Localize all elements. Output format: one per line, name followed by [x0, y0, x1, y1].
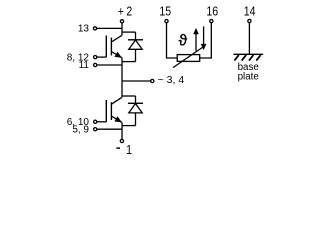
IGBT Q2 collector diagonal: [111, 97, 121, 104]
wire 16 down to thermistor R1: [200, 23, 212, 58]
diode D2 branch top: [135, 96, 137, 103]
base plate hatch 1: [234, 55, 238, 61]
svg-text:5, 9: 5, 9: [72, 124, 89, 135]
svg-text:ϑ: ϑ: [179, 33, 188, 50]
base plate line: [234, 53, 264, 55]
terminal 11 circle: [94, 63, 97, 66]
base plate hatch 3: [249, 55, 253, 61]
IGBT Q1 emitter arrowhead: [114, 52, 122, 58]
IGBT Q1 body bar: [110, 38, 112, 56]
svg-text:1: 1: [126, 142, 132, 157]
terminal 6,10 circle: [94, 120, 97, 123]
IGBT Q2 body bar: [110, 102, 112, 120]
IGBT Q1 collector diagonal: [111, 35, 121, 42]
terminal -1 circle: [120, 139, 123, 142]
emitter rail top IGBT down to bottom collector node: [121, 58, 123, 98]
wire 5,9 to emitter rail: [97, 128, 122, 130]
wire mid node to terminal 3,4: [122, 80, 151, 82]
wire 15 down to thermistor R1: [167, 23, 178, 58]
wire 13 to collector rail: [97, 27, 122, 29]
svg-text:15: 15: [159, 3, 171, 18]
svg-text:16: 16: [206, 3, 218, 18]
base plate hatch 4: [256, 55, 260, 61]
diode D1 cathode bar: [128, 39, 143, 41]
base plate hatch 2: [242, 55, 246, 61]
IGBT Q1 emitter diagonal: [111, 52, 121, 58]
terminal 3,4 circle: [151, 79, 154, 82]
diode D1 branch top: [135, 32, 137, 40]
arrow up (resistance): [195, 32, 197, 51]
wire diode D1 bottom to emitter rail: [122, 61, 136, 63]
svg-text:~ 3, 4: ~ 3, 4: [158, 74, 185, 86]
svg-text:13: 13: [78, 24, 90, 35]
diode D1 triangle: [129, 40, 142, 49]
IGBT Q2 emitter arrowhead: [114, 116, 122, 122]
terminal 8,12 circle: [94, 56, 97, 59]
wire diode D2 bottom to emitter rail: [122, 125, 136, 127]
diode D1 branch bottom: [135, 49, 137, 61]
wire from +2 down to collector node: [121, 23, 123, 35]
svg-text:2: 2: [126, 3, 132, 18]
terminal +2 circle: [120, 20, 123, 23]
thermistor R1 body: [177, 55, 200, 62]
diode D2 branch bottom: [135, 113, 137, 126]
terminal 14 circle: [248, 19, 251, 22]
wire 14 down to base plate: [248, 23, 250, 54]
svg-text:14: 14: [244, 3, 256, 18]
wire collector to diode D2 top: [122, 95, 136, 97]
wire gate 6,10 to gate bar: [97, 121, 106, 123]
terminal +2 label: [118, 3, 133, 18]
svg-text:plate: plate: [238, 72, 260, 83]
terminal 5,9 circle: [94, 128, 97, 131]
terminal -1 label: [116, 147, 120, 149]
wire collector to diode D1 top: [122, 31, 136, 33]
IGBT Q2 emitter diagonal: [111, 116, 121, 122]
IGBT Q2 gate bar: [105, 100, 107, 122]
terminal 13 circle: [93, 27, 96, 30]
emitter rail bottom IGBT to terminal -1: [121, 122, 123, 139]
wire gate 8,12 to gate bar: [97, 56, 106, 58]
svg-text:11: 11: [79, 60, 90, 71]
diode D2 cathode bar: [128, 102, 143, 104]
terminal 15 circle: [165, 20, 168, 23]
diode D2 triangle: [129, 104, 142, 113]
svg-text:+: +: [118, 3, 124, 18]
IGBT Q1 gate bar: [105, 36, 107, 58]
wire 11 to emitter rail: [97, 64, 122, 66]
thermistor R1 diagonal stroke: [173, 46, 204, 68]
terminal 16 circle: [210, 20, 213, 23]
arrow down (temperature): [203, 26, 205, 44]
